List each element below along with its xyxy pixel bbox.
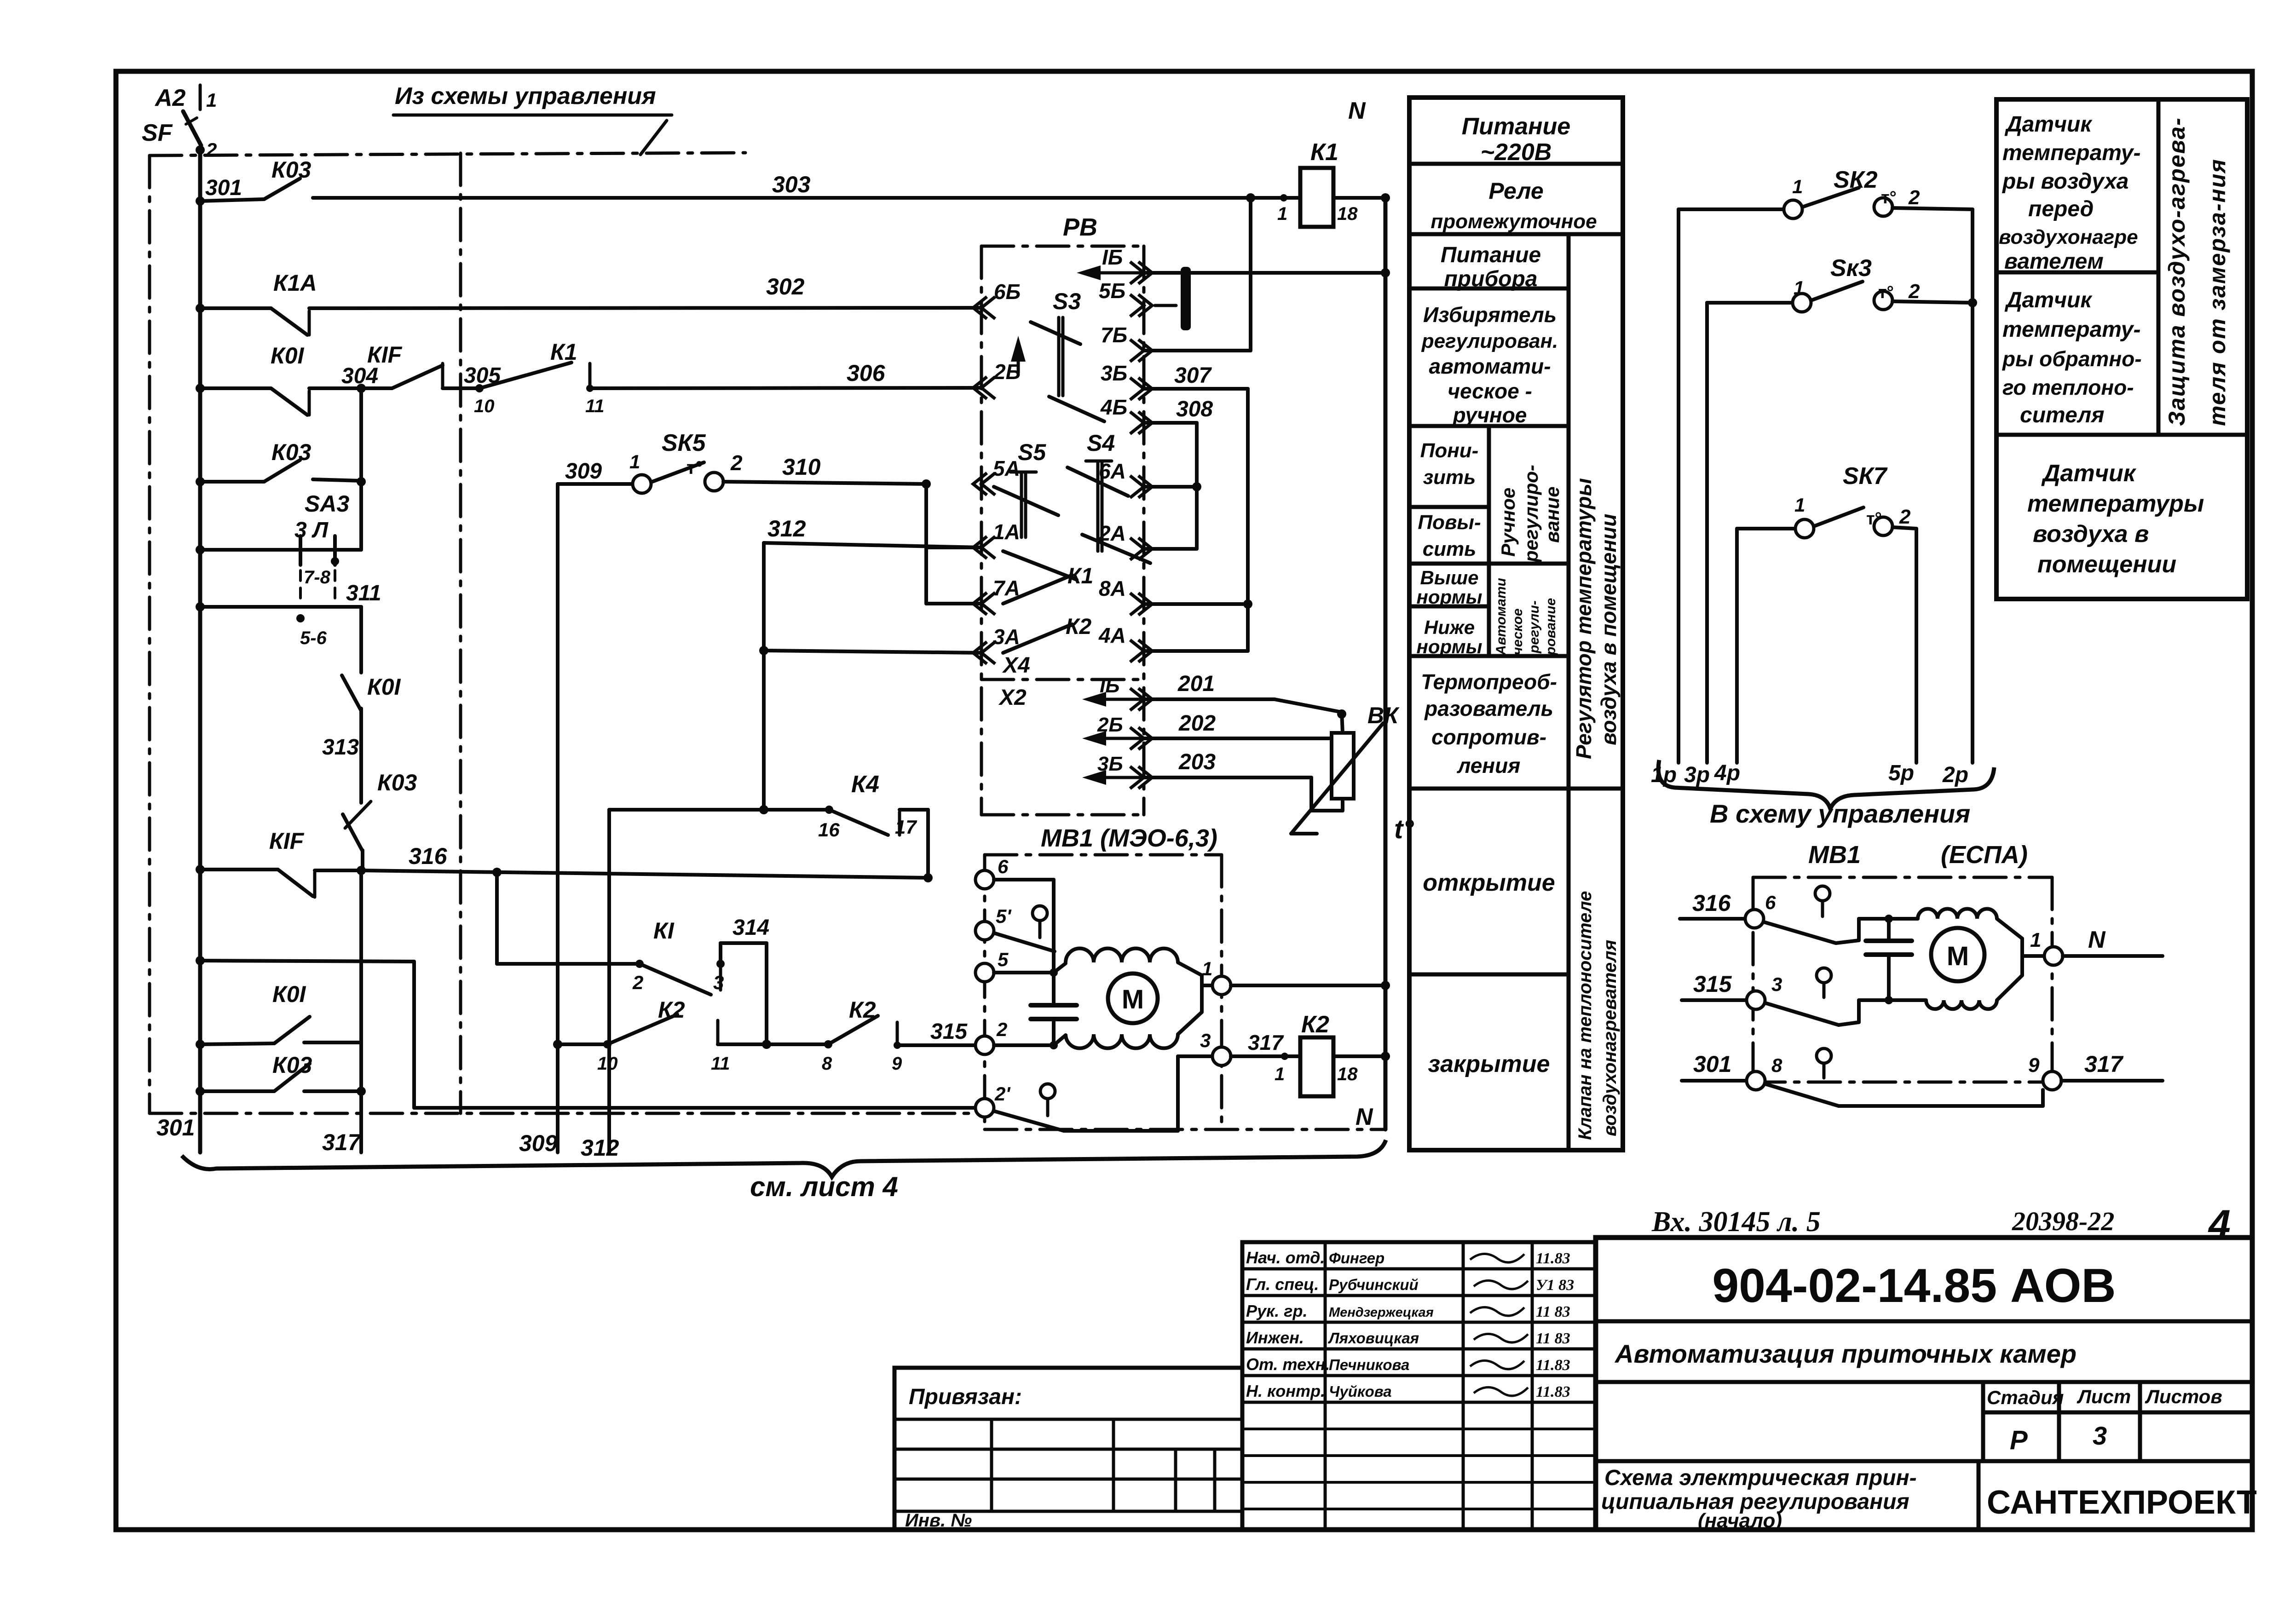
svg-text:воздухонагре: воздухонагре — [1999, 226, 2138, 248]
node row 3A on wire 312 branch — [759, 646, 768, 655]
PB terminal 4B — [1130, 412, 1152, 434]
svg-text:5-6: 5-6 — [300, 628, 327, 648]
svg-text:9: 9 — [892, 1054, 902, 1074]
contact K03 (row 303) — [200, 199, 264, 201]
svg-text:Термопреоб-: Термопреоб- — [1421, 670, 1557, 694]
table row line 7 — [1409, 654, 1569, 658]
contact K03 (bottom) — [200, 1089, 274, 1093]
wire 309 vertical — [556, 484, 560, 1152]
K4 row horizontal — [609, 808, 829, 812]
node on bus row K0I bottom — [196, 1040, 205, 1049]
svg-text:Ляховицкая: Ляховицкая — [1328, 1330, 1419, 1347]
pin5 connecting — [1054, 963, 1066, 973]
svg-text:5': 5' — [996, 905, 1012, 927]
svg-text:316: 316 — [1692, 890, 1731, 916]
wire 317 vertical — [359, 870, 363, 1044]
PB terminal 8A — [1130, 593, 1152, 615]
svg-text:го теплоно-: го теплоно- — [2002, 375, 2134, 399]
wire 203 — [1144, 776, 1311, 779]
svg-text:Нач. отд.: Нач. отд. — [1246, 1248, 1325, 1267]
node on bus row K03 bottom — [196, 1087, 205, 1096]
svg-text:1: 1 — [1202, 958, 1212, 979]
svg-text:2: 2 — [996, 1019, 1007, 1040]
svg-text:10: 10 — [474, 396, 495, 416]
svg-text:ры воздуха: ры воздуха — [2002, 169, 2128, 194]
svg-text:3р: 3р — [1684, 763, 1710, 787]
PB terminal 3B — [1130, 378, 1152, 400]
switch S3 poles — [1057, 317, 1061, 396]
PB terminal 4A — [1130, 640, 1152, 662]
svg-text:301: 301 — [205, 176, 242, 200]
motor windings top — [1066, 948, 1178, 962]
wire 202 — [1144, 737, 1332, 740]
motor pin 2 — [975, 1036, 994, 1054]
node on bus row to pin 2-prime — [196, 956, 205, 965]
junction node wire 303 / PB feed — [1246, 193, 1255, 202]
svg-text:2: 2 — [730, 451, 743, 475]
svg-text:нормы: нормы — [1416, 636, 1482, 657]
svg-text:Инжен.: Инжен. — [1246, 1328, 1304, 1347]
table row line 4 — [1409, 505, 1489, 509]
contact K1F — [361, 386, 392, 390]
svg-text:311: 311 — [346, 581, 381, 605]
svg-text:К2: К2 — [1301, 1011, 1329, 1038]
motor pin 2-prime — [975, 1099, 994, 1117]
node on bus row K03#2 — [196, 477, 205, 486]
branch down to contact K1 row — [495, 872, 499, 964]
sensor description box — [1996, 99, 2247, 599]
svg-text:Лист: Лист — [2077, 1386, 2131, 1407]
node on bus row 302 — [196, 304, 205, 313]
svg-text:ручное: ручное — [1452, 403, 1527, 427]
actuator ESPA dash-dot box — [1753, 876, 2052, 879]
switch S5 poles — [1010, 471, 1036, 474]
node on bus row SA3 — [196, 545, 205, 554]
svg-text:18: 18 — [1337, 1064, 1358, 1084]
svg-text:Схема электрическая прин-: Схема электрическая прин- — [1604, 1466, 1917, 1490]
svg-text:315: 315 — [1693, 971, 1732, 997]
svg-text:К0I: К0I — [272, 981, 306, 1007]
svg-text:Пони-: Пони- — [1420, 439, 1479, 462]
svg-text:Датчик: Датчик — [2004, 288, 2093, 312]
svg-text:прибора: прибора — [1444, 267, 1537, 291]
table row line 8 — [1409, 787, 1623, 791]
svg-text:1: 1 — [1792, 176, 1803, 197]
svg-text:В схему управления: В схему управления — [1710, 799, 1970, 828]
svg-text:1: 1 — [1275, 1064, 1285, 1084]
svg-text:302: 302 — [766, 274, 805, 299]
title block box — [1596, 1238, 2252, 1530]
PB terminal 7A — [973, 593, 995, 615]
svg-text:5А: 5А — [993, 456, 1020, 480]
svg-text:ческое -: ческое - — [1448, 379, 1532, 403]
svg-text:904-02-14.85 АОВ: 904-02-14.85 АОВ — [1712, 1259, 2116, 1313]
leader line to control-circuit wire — [640, 121, 667, 155]
panel boundary dash-dot left vertical — [148, 155, 151, 1113]
switch S4 poles — [1086, 460, 1112, 463]
espa windings bottom — [1926, 1000, 1997, 1009]
contact K1 (2-3) — [635, 960, 644, 968]
PB terminal 5B — [1130, 294, 1152, 317]
svg-text:317: 317 — [322, 1129, 362, 1155]
wire 307 — [1144, 387, 1248, 391]
contact K03 (second) — [200, 480, 264, 484]
svg-text:8А: 8А — [1099, 576, 1126, 600]
svg-text:К2: К2 — [849, 997, 876, 1023]
svg-text:температу-: температу- — [2002, 141, 2140, 165]
thermostat SK3 — [1705, 303, 1709, 763]
contact K1A — [200, 306, 271, 310]
svg-text:открытие: открытие — [1423, 870, 1555, 896]
svg-text:315: 315 — [930, 1019, 968, 1044]
svg-text:317: 317 — [2084, 1051, 2124, 1077]
PB feed vertical from wire 303 — [1249, 198, 1252, 351]
bracket to control circuit — [1658, 760, 1994, 809]
node 304 — [357, 384, 366, 393]
svg-text:1: 1 — [2030, 929, 2041, 951]
svg-text:К0I: К0I — [367, 674, 401, 700]
svg-text:203: 203 — [1178, 750, 1216, 774]
node 307-8A — [1243, 599, 1252, 609]
svg-text:6Б: 6Б — [994, 280, 1021, 304]
svg-text:3: 3 — [2093, 1421, 2107, 1450]
svg-text:Ручное: Ручное — [1497, 488, 1519, 557]
table row line 9 — [1409, 973, 1569, 977]
svg-text:11 83: 11 83 — [1536, 1330, 1570, 1347]
svg-text:Питание: Питание — [1441, 243, 1541, 267]
svg-text:2: 2 — [632, 972, 643, 993]
contact K03 on branch — [343, 814, 363, 851]
stub row 5B — [1155, 304, 1176, 307]
motor pin 5-prime — [975, 921, 994, 940]
PB terminal 3A — [973, 642, 995, 664]
svg-text:К1: К1 — [1310, 139, 1338, 166]
table: signal description — [1409, 98, 1623, 1150]
svg-text:201: 201 — [1177, 672, 1215, 696]
svg-text:3Б: 3Б — [1101, 361, 1127, 385]
limit switch on 5-prime — [1033, 906, 1047, 921]
svg-text:202: 202 — [1178, 711, 1216, 736]
svg-text:Вх. 30145 л. 5: Вх. 30145 л. 5 — [1651, 1206, 1821, 1238]
svg-text:ления: ления — [1457, 754, 1521, 777]
svg-text:Автоматизация приточных каме: Автоматизация приточных камер — [1614, 1339, 2077, 1368]
motor pin 6 — [975, 870, 994, 889]
motor pin 1 — [1212, 976, 1231, 995]
svg-text:8: 8 — [822, 1054, 832, 1074]
svg-text:сопротив-: сопротив- — [1431, 725, 1546, 749]
wire 317 to coil K2 — [1231, 1054, 1300, 1058]
svg-text:SF: SF — [142, 120, 173, 146]
svg-text:(ЕСПА): (ЕСПА) — [1941, 841, 2028, 869]
svg-text:S3: S3 — [1053, 288, 1081, 314]
svg-text:4Б: 4Б — [1100, 395, 1127, 419]
svg-text:воздуха в: воздуха в — [2033, 521, 2149, 547]
svg-text:промежуточное: промежуточное — [1431, 210, 1597, 233]
svg-text:309: 309 — [565, 459, 602, 484]
svg-text:Листов: Листов — [2145, 1386, 2222, 1407]
svg-text:Печникова: Печникова — [1329, 1356, 1409, 1373]
svg-text:Привязан:: Привязан: — [909, 1385, 1022, 1409]
espa limit switch pin8 — [1817, 1048, 1831, 1063]
svg-text:(начало): (начало) — [1698, 1509, 1782, 1532]
wire row 3A — [764, 651, 981, 653]
svg-text:температу-: температу- — [2002, 317, 2140, 342]
svg-text:Реле: Реле — [1488, 178, 1543, 204]
svg-text:11: 11 — [585, 396, 605, 416]
node 314/315 — [762, 1040, 771, 1049]
privyazan box — [894, 1368, 1242, 1530]
svg-text:7Б: 7Б — [1101, 323, 1127, 347]
svg-text:САНТЕХПРОЕКТ: САНТЕХПРОЕКТ — [1987, 1484, 2257, 1521]
svg-text:Р: Р — [2010, 1425, 2028, 1455]
PB terminal 2A — [1130, 538, 1152, 560]
thermostat SK7 — [1735, 529, 1739, 763]
svg-text:ВК: ВК — [1367, 703, 1400, 728]
svg-text:306: 306 — [847, 360, 886, 386]
svg-text:К1: К1 — [550, 339, 577, 365]
motor M circle — [1108, 973, 1158, 1023]
svg-text:3: 3 — [713, 972, 724, 993]
espa pin 1 to N — [2044, 947, 2063, 965]
svg-text:310: 310 — [782, 454, 821, 480]
limit switch on 2-prime — [1040, 1084, 1055, 1099]
svg-text:N: N — [1348, 98, 1366, 124]
svg-text:11.83: 11.83 — [1536, 1250, 1570, 1267]
contact K2 (10-11) — [558, 1042, 607, 1046]
svg-text:воздуха в помещении: воздуха в помещении — [1597, 514, 1621, 745]
svg-text:7-8: 7-8 — [304, 567, 331, 587]
svg-text:т°: т° — [1878, 283, 1894, 302]
wire 201 — [1144, 697, 1275, 701]
svg-text:К2: К2 — [658, 997, 685, 1023]
svg-text:Мендзержецкая: Мендзержецкая — [1329, 1305, 1434, 1320]
espa limit switch pin6 — [1815, 886, 1830, 901]
svg-text:закрытие: закрытие — [1428, 1051, 1550, 1077]
svg-text:т°: т° — [1866, 509, 1882, 529]
arrow up inside PB — [1017, 344, 1020, 373]
branch 310 down to 7A — [924, 484, 928, 604]
espa winding connect right — [1997, 919, 2022, 939]
node on bus row 304 — [196, 384, 205, 393]
svg-text:1: 1 — [1794, 494, 1805, 516]
svg-text:Стадия: Стадия — [1987, 1387, 2064, 1408]
svg-text:Избирятель: Избирятель — [1423, 303, 1557, 327]
node on bus row 303 — [196, 196, 205, 206]
svg-text:автомати-: автомати- — [1429, 354, 1551, 378]
svg-text:У1 83: У1 83 — [1536, 1277, 1574, 1294]
svg-text:4р: 4р — [1714, 761, 1740, 785]
svg-text:Датчик: Датчик — [2041, 460, 2137, 487]
svg-text:К03: К03 — [377, 770, 417, 795]
svg-text:Рубчинский: Рубчинский — [1329, 1276, 1419, 1293]
bottom bracket see sheet 4 — [182, 1140, 1386, 1177]
table col rotated right — [1567, 234, 1571, 1150]
thermostat SK5 — [558, 482, 633, 486]
node wire N top — [1381, 193, 1390, 202]
resistance thermometer BK — [1337, 709, 1346, 719]
svg-text:1А: 1А — [993, 520, 1020, 544]
panel boundary dash-dot bottom — [150, 1112, 982, 1115]
svg-text:6: 6 — [998, 856, 1009, 877]
svg-text:3А: 3А — [993, 625, 1020, 649]
branch 312 to row 1A — [762, 543, 766, 810]
svg-text:309: 309 — [519, 1130, 558, 1156]
table row line 2 — [1409, 287, 1569, 291]
svg-text:11.83: 11.83 — [1536, 1383, 1570, 1400]
espa motor M — [1931, 928, 1984, 981]
svg-text:КIF: КIF — [367, 342, 403, 368]
svg-text:313: 313 — [322, 735, 359, 760]
svg-text:~220В: ~220В — [1481, 139, 1552, 166]
svg-text:Датчик: Датчик — [2004, 112, 2093, 137]
svg-text:Повы-: Повы- — [1418, 511, 1481, 534]
branch vertical 304-to-K03 — [359, 388, 363, 482]
svg-text:SА3: SА3 — [305, 491, 349, 517]
node 308-6A — [1192, 482, 1201, 491]
svg-text:1: 1 — [1794, 277, 1804, 299]
svg-text:вание: вание — [1541, 486, 1563, 543]
table col sub — [1487, 426, 1491, 656]
node 2 (wire 301 top) — [196, 145, 205, 155]
breaker SF — [199, 85, 202, 109]
svg-text:М: М — [1122, 985, 1144, 1014]
svg-text:8: 8 — [1771, 1054, 1782, 1076]
PB terminal 5A — [973, 473, 995, 495]
svg-text:308: 308 — [1176, 397, 1213, 421]
node on bus row 311 — [196, 602, 205, 611]
contact K2 (8-9) — [767, 1042, 828, 1046]
contact K0I (bottom) — [200, 1043, 274, 1044]
branch vertical 311 down — [359, 607, 363, 673]
svg-text:сителя: сителя — [2020, 403, 2104, 427]
svg-text:317: 317 — [1248, 1031, 1284, 1054]
svg-text:МВ1 (МЭО-6,3): МВ1 (МЭО-6,3) — [1041, 824, 1217, 852]
svg-text:теля от замерза-ния: теля от замерза-ния — [2204, 158, 2230, 426]
svg-text:КIF: КIF — [269, 828, 305, 854]
svg-text:S4: S4 — [1087, 430, 1115, 456]
node K1-feed branch — [492, 868, 502, 877]
contact K1 (10-11) — [479, 363, 571, 388]
SA3 mech link dashes — [299, 570, 302, 598]
motor windings bottom — [1066, 1034, 1178, 1048]
espa wire 316 pin 6 — [1680, 917, 1745, 921]
svg-text:Автомати: Автомати — [1494, 578, 1509, 656]
espa wire 301 pin 8 — [1682, 1079, 1747, 1083]
contact K0I (row 304) — [200, 386, 271, 390]
svg-text:1: 1 — [1277, 204, 1287, 224]
relay coil K1 — [1280, 194, 1287, 202]
svg-text:Х2: Х2 — [998, 685, 1027, 710]
table row line 1 — [1409, 232, 1623, 236]
node on bus row 316 — [196, 865, 205, 874]
actuator MB1 dash-dot box — [985, 853, 1222, 857]
node 316-branch — [357, 866, 366, 875]
espa capacitor — [1887, 919, 1891, 941]
svg-text:A2: A2 — [154, 85, 186, 111]
svg-text:регули-: регули- — [1527, 600, 1542, 654]
svg-text:ры обратно-: ры обратно- — [2002, 347, 2142, 371]
node K4 to wire 316 — [923, 873, 933, 882]
svg-text:вателем: вателем — [2004, 249, 2104, 274]
bus wire 301 vertical — [198, 150, 202, 1152]
table row line 0 — [1409, 162, 1623, 166]
svg-text:SК5: SК5 — [662, 430, 706, 456]
svg-text:2: 2 — [1899, 506, 1911, 528]
node 305 — [475, 384, 484, 392]
svg-text:регулиро-: регулиро- — [1520, 465, 1542, 563]
svg-text:К03: К03 — [271, 439, 311, 465]
svg-text:11 83: 11 83 — [1536, 1303, 1570, 1320]
svg-text:SК7: SК7 — [1843, 463, 1888, 490]
X2 terminal 3B — [1130, 766, 1152, 789]
svg-text:3: 3 — [1200, 1030, 1211, 1051]
PB terminal 1B — [1130, 262, 1152, 284]
svg-text:К03: К03 — [272, 1052, 312, 1078]
svg-text:5р: 5р — [1888, 761, 1914, 785]
svg-text:Клапан на теплоносителе: Клапан на теплоносителе — [1575, 891, 1595, 1140]
wire row 1B to N — [1144, 271, 1385, 275]
svg-text:воздухонагревателя: воздухонагревателя — [1600, 940, 1620, 1136]
svg-text:1: 1 — [206, 89, 217, 111]
table row line 5 — [1409, 562, 1569, 566]
motor pin 3 — [1212, 1047, 1231, 1065]
PB terminal 7B — [1130, 340, 1152, 362]
device PB dash-dot box — [981, 245, 1144, 248]
svg-text:9: 9 — [2028, 1054, 2040, 1077]
panel boundary dash-dot top — [150, 153, 745, 155]
BK adjustment arrow — [1291, 723, 1383, 834]
winding connections — [1178, 962, 1202, 975]
svg-text:312: 312 — [767, 516, 806, 541]
svg-text:нормы: нормы — [1416, 586, 1482, 608]
svg-text:SК2: SК2 — [1834, 167, 1878, 193]
PB terminal 1A — [973, 536, 995, 559]
svg-text:КI: КI — [653, 918, 675, 944]
node wire 309 to K2 row — [553, 1040, 562, 1049]
SA3 pole row 7-8 — [200, 548, 282, 552]
svg-text:Инв. №: Инв. № — [905, 1510, 972, 1531]
panel boundary dash-dot mid vertical — [459, 153, 462, 1113]
svg-text:Гл. спец.: Гл. спец. — [1246, 1275, 1319, 1294]
svg-text:Питание: Питание — [1462, 113, 1570, 140]
svg-text:5: 5 — [998, 949, 1009, 970]
svg-text:S5: S5 — [1018, 439, 1046, 465]
table row line 6 — [1409, 605, 1489, 609]
svg-text:4А: 4А — [1098, 623, 1126, 647]
X2 terminal 1B — [1130, 688, 1152, 710]
PB terminal 2B — [973, 377, 995, 399]
svg-text:Sк3: Sк3 — [1830, 255, 1872, 282]
wire SK right vertical — [1971, 209, 1974, 763]
svg-text:Рук. гр.: Рук. гр. — [1246, 1302, 1308, 1320]
signature table — [1242, 1242, 1596, 1530]
svg-text:17: 17 — [895, 816, 917, 838]
PB terminal 6B — [973, 297, 995, 319]
svg-text:МВ1: МВ1 — [1808, 841, 1861, 869]
svg-text:Х4: Х4 — [1002, 653, 1030, 678]
svg-text:6: 6 — [1765, 892, 1776, 913]
svg-text:2р: 2р — [1942, 763, 1968, 787]
svg-text:N: N — [1356, 1104, 1373, 1130]
svg-text:Ниже: Ниже — [1424, 616, 1475, 638]
espa pin 9 wire 317 — [2043, 1071, 2061, 1090]
svg-text:Регулятор температуры: Регулятор температуры — [1572, 478, 1596, 759]
espa limit switch pin3 — [1817, 968, 1831, 983]
svg-text:316: 316 — [409, 843, 448, 869]
svg-text:регулирован.: регулирован. — [1421, 330, 1558, 352]
svg-text:см. лист 4: см. лист 4 — [750, 1171, 898, 1202]
svg-text:К03: К03 — [271, 157, 311, 183]
